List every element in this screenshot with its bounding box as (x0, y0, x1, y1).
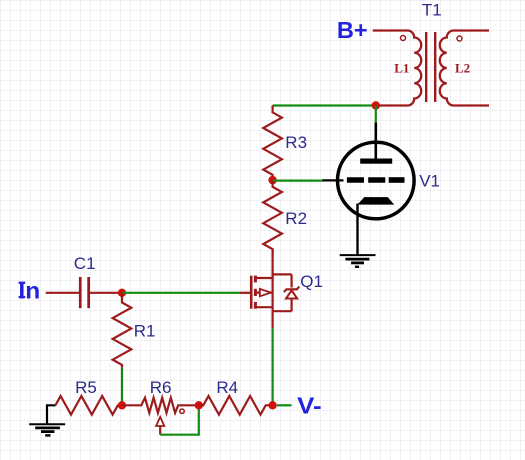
label Q1 (300, 272, 323, 291)
label R1 (134, 322, 156, 341)
svg-text:V-: V- (297, 393, 321, 419)
wire: node to Q1 gate (green) (122, 292, 240, 294)
svg-text:R3: R3 (285, 133, 307, 152)
resistor R3 (263, 106, 282, 181)
label L1 (394, 61, 409, 76)
mosfet Q1 (251, 274, 272, 311)
tube V1 cathode (357, 197, 394, 205)
svg-text:V1: V1 (419, 171, 440, 190)
wire: R2 to Q1 drain (272, 249, 274, 278)
wire: In to C1 (46, 292, 79, 294)
label R6 (150, 378, 172, 397)
potentiometer R6 (122, 398, 199, 413)
label R5 (75, 378, 97, 397)
label C1 (74, 254, 96, 273)
svg-text:L2: L2 (455, 61, 470, 76)
ground (input) lead (47, 405, 56, 424)
junction: R6/R4 node (195, 401, 203, 409)
label V1 (419, 171, 440, 190)
transformer T1 label (422, 1, 442, 20)
svg-text:T1: T1 (422, 1, 442, 20)
junction: primary/plate node (372, 101, 380, 109)
transformer T1 phase dot (primary) (401, 36, 406, 41)
ground (input) (29, 424, 65, 435)
wire: R1 to rail (green) (121, 368, 123, 406)
net label B+ (337, 17, 368, 43)
svg-text:Q1: Q1 (300, 272, 323, 291)
svg-text:B+: B+ (337, 17, 368, 43)
wire: Q1 source to rail (green) (272, 328, 274, 405)
wire: node to V- (green) (277, 404, 292, 406)
tube V1 envelope (338, 142, 415, 219)
svg-text:R5: R5 (75, 378, 97, 397)
resistor R1 (113, 293, 132, 368)
potentiometer R6 wiper terminal circle (180, 409, 184, 413)
transformer T1 core (426, 32, 435, 102)
transformer T1 primary winding L1 (373, 31, 421, 106)
wire: node to grid (green) (273, 180, 323, 182)
transformer T1 phase dot (secondary) (457, 36, 462, 41)
tube V1 plate lead (374, 123, 377, 162)
label R3 (285, 133, 307, 152)
label L2 (455, 61, 470, 76)
net label In (18, 277, 40, 303)
wire: wiper to R6 right node (green) (160, 405, 199, 434)
mosfet Q1 body diode (273, 274, 300, 311)
junction: C1/R1/gate node (118, 289, 126, 297)
resistor R2 (263, 181, 282, 255)
svg-text:R4: R4 (216, 378, 238, 397)
potentiometer R6 wiper arrow (156, 417, 164, 435)
svg-text:R1: R1 (134, 322, 156, 341)
transformer T1 secondary winding L2 (440, 31, 489, 106)
junction: R5/R6/R1 node (118, 401, 126, 409)
mosfet Q1 gate lead (240, 292, 251, 294)
svg-text:C1: C1 (74, 254, 96, 273)
ground (tube cathode) (340, 255, 376, 267)
svg-text:R6: R6 (150, 378, 172, 397)
tube V1 grid lead (323, 179, 344, 181)
wire: R3 top to primary-bottom node (green) (273, 104, 376, 106)
label R2 (285, 209, 307, 228)
junction: R4/source/V- node (268, 401, 276, 409)
tube V1 grid (347, 177, 405, 183)
tube V1 plate (360, 159, 392, 164)
tube V1 cathode lead (356, 204, 358, 256)
label R4 (216, 378, 238, 397)
capacitor C1 (79, 277, 90, 308)
net label V- (297, 393, 321, 419)
resistor R5 (55, 396, 122, 415)
svg-text:R2: R2 (285, 209, 307, 228)
resistor R4 (199, 396, 273, 415)
svg-text:L1: L1 (394, 61, 409, 76)
svg-text:In: In (18, 277, 40, 303)
junction: R3/R2/grid node (268, 176, 276, 184)
wire: Q1 source down (maroon) (272, 311, 274, 328)
wire: node to V1 plate (green) (375, 106, 377, 124)
wire: C1 to gate node (90, 292, 122, 294)
